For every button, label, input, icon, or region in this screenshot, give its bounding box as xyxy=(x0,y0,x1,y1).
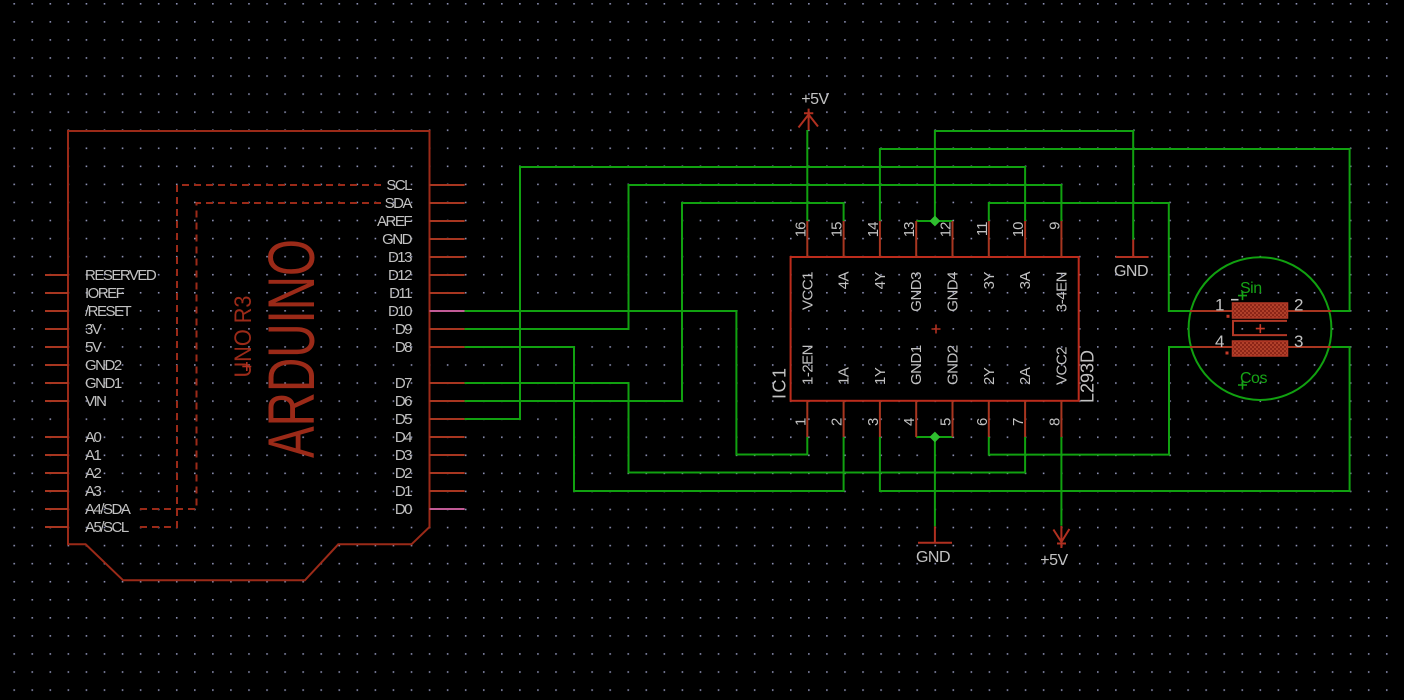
svg-text:GND1: GND1 xyxy=(908,345,925,385)
svg-text:+5V: +5V xyxy=(801,91,829,108)
svg-text:A3: A3 xyxy=(85,483,102,500)
svg-text:1A: 1A xyxy=(836,367,853,385)
svg-text:VCC1: VCC1 xyxy=(799,272,816,310)
Arduino right pin D4 xyxy=(430,436,465,438)
wire IC pin 14 to motor pin 2 xyxy=(880,149,1350,311)
IC1 pin 16 (VCC1) xyxy=(806,221,808,257)
svg-text:D7: D7 xyxy=(395,375,412,392)
motor rotor bracket xyxy=(1233,321,1287,335)
wire net D6 to IC pin 15 xyxy=(465,203,844,401)
Arduino left pin 5V xyxy=(45,346,68,348)
svg-text:/RESET: /RESET xyxy=(85,303,132,320)
svg-text:13: 13 xyxy=(901,222,918,237)
Arduino left pin 3V xyxy=(45,328,68,330)
Arduino right pin D7 xyxy=(430,382,465,384)
GND symbol right xyxy=(1116,240,1149,258)
svg-text:6: 6 xyxy=(974,418,991,426)
svg-text:3: 3 xyxy=(865,418,882,426)
svg-text:D13: D13 xyxy=(388,249,412,266)
svg-text:4: 4 xyxy=(901,418,918,426)
wire IC pins 4,5 tie to GND xyxy=(916,437,952,526)
svg-text:1: 1 xyxy=(1215,296,1224,315)
motor pin 2 lead xyxy=(1288,310,1332,312)
svg-text:D1: D1 xyxy=(395,483,412,500)
svg-text:2Y: 2Y xyxy=(981,367,998,385)
Arduino right pin D10 xyxy=(430,310,465,312)
svg-text:IC1: IC1 xyxy=(770,366,790,399)
op-amp driver IC1 L293D body xyxy=(791,257,1079,401)
dashed I2C wire SCL to A5/SCL xyxy=(135,185,381,527)
Arduino UNO R3 module A1 body outline xyxy=(68,131,430,580)
IC1 pin 15 (4A) xyxy=(843,221,845,257)
IC1 pin 11 (3Y) xyxy=(988,221,990,257)
IC1 pin 3 (1Y) xyxy=(879,401,881,437)
svg-text:D9: D9 xyxy=(395,321,412,338)
Arduino right pin D6 xyxy=(430,400,465,402)
svg-text:1Y: 1Y xyxy=(872,367,889,385)
svg-text:A2: A2 xyxy=(85,465,102,482)
Arduino right pin GND xyxy=(430,238,465,240)
svg-text:VCC2: VCC2 xyxy=(1053,347,1070,385)
Arduino left pin IOREF xyxy=(45,292,68,294)
Arduino left pin A3 xyxy=(45,490,68,492)
wire IC pin 6 to motor pin 4 xyxy=(989,347,1190,455)
svg-text:SCL: SCL xyxy=(386,177,412,194)
svg-text:16: 16 xyxy=(792,222,809,237)
IC1 pin 10 (3A) xyxy=(1024,221,1026,257)
svg-text:3: 3 xyxy=(1294,332,1303,351)
svg-text:A4/SDA: A4/SDA xyxy=(85,501,131,518)
Arduino right pin SDA xyxy=(430,202,465,204)
svg-text:14: 14 xyxy=(865,222,882,237)
svg-text:4: 4 xyxy=(1215,332,1224,351)
svg-text:3Y: 3Y xyxy=(981,272,998,290)
IC1 pin 2 (1A) xyxy=(843,401,845,437)
Arduino right pin D8 xyxy=(430,346,465,348)
motor coil Cos winding xyxy=(1233,341,1288,356)
Arduino right pin SCL xyxy=(430,184,465,186)
dashed I2C wire SDA to A4/SDA xyxy=(140,203,381,509)
junction at IC pins 4-5 xyxy=(930,432,941,443)
svg-text:IOREF: IOREF xyxy=(85,285,125,302)
IC1 pin 9 (3-4EN) xyxy=(1060,221,1062,257)
svg-text:AREF: AREF xyxy=(377,213,412,230)
svg-text:GND2: GND2 xyxy=(945,345,962,385)
wire IC pin 16 to +5V xyxy=(806,130,808,221)
svg-text:5: 5 xyxy=(938,418,955,426)
wire IC pin 3 to motor pin 3 xyxy=(880,347,1350,491)
svg-text:D6: D6 xyxy=(395,393,412,410)
Arduino right pin D3 xyxy=(430,454,465,456)
IC1 pin 5 (GND2) xyxy=(952,401,954,437)
svg-text:VIN: VIN xyxy=(85,393,106,410)
UNO R3 origin cross xyxy=(242,362,251,371)
Arduino left pin GND2 xyxy=(45,364,68,366)
svg-text:D2: D2 xyxy=(395,465,412,482)
Arduino left pin A5/SCL xyxy=(45,526,68,528)
svg-text:4Y: 4Y xyxy=(872,272,889,290)
Arduino left pin GND1 xyxy=(45,382,68,384)
Arduino left pin A1 xyxy=(45,454,68,456)
+5V supply symbol top xyxy=(799,109,819,130)
svg-text:D5: D5 xyxy=(395,411,412,428)
svg-text:ARDUINO: ARDUINO xyxy=(254,239,328,458)
Arduino right pin D2 xyxy=(430,472,465,474)
wire net D10 to IC pin 1 xyxy=(465,311,808,455)
motor pin 4 lead xyxy=(1190,346,1233,348)
Arduino left pin VIN xyxy=(45,400,68,402)
Arduino right pin D5 xyxy=(430,418,465,420)
svg-text:1-2EN: 1-2EN xyxy=(799,345,816,385)
motor Sin plus mark xyxy=(1238,291,1247,300)
IC1 origin cross xyxy=(932,325,941,334)
svg-text:D3: D3 xyxy=(395,447,412,464)
svg-text:11: 11 xyxy=(974,222,991,236)
svg-text:GND3: GND3 xyxy=(908,272,925,312)
motor polarity dot pin1 xyxy=(1227,315,1230,318)
wire IC pin 11 to motor pin 1 xyxy=(989,203,1190,311)
GND symbol bottom xyxy=(918,526,952,542)
svg-text:3V: 3V xyxy=(85,321,102,338)
Arduino right pin D9 xyxy=(430,328,465,330)
svg-text:10: 10 xyxy=(1010,222,1027,237)
svg-text:15: 15 xyxy=(829,222,846,237)
wire net D5 to IC pin 10 xyxy=(465,167,1026,419)
svg-text:D10: D10 xyxy=(388,303,412,320)
svg-text:5V: 5V xyxy=(85,339,102,356)
svg-text:12: 12 xyxy=(938,222,955,237)
svg-text:A1: A1 xyxy=(85,447,102,464)
svg-text:9: 9 xyxy=(1046,222,1063,230)
svg-text:+5V: +5V xyxy=(1040,552,1068,569)
svg-text:GND: GND xyxy=(916,549,950,566)
IC1 pin 14 (4Y) xyxy=(879,221,881,257)
svg-text:SDA: SDA xyxy=(385,195,413,212)
Arduino left pin /RESET xyxy=(45,310,68,312)
motor pin 3 lead xyxy=(1288,346,1332,348)
IC1 pin 8 (VCC2) xyxy=(1060,401,1062,437)
svg-text:GND2: GND2 xyxy=(85,357,122,374)
motor Cos plus mark xyxy=(1238,381,1247,390)
svg-text:GND4: GND4 xyxy=(945,272,962,312)
svg-text:GND1: GND1 xyxy=(85,375,122,392)
motor M1 body circle xyxy=(1189,257,1332,400)
motor Sin minus mark xyxy=(1231,299,1239,301)
Arduino right pin D11 xyxy=(430,292,465,294)
wire IC pins 13,12 tie to GND xyxy=(916,131,1133,240)
junction at IC pins 13-12 xyxy=(930,216,941,227)
motor coil Sin winding xyxy=(1233,303,1288,318)
svg-text:D0: D0 xyxy=(395,501,412,518)
svg-text:2: 2 xyxy=(1294,296,1303,315)
+5V supply symbol bottom (arrow down) xyxy=(1053,526,1069,548)
Arduino left pin A0 xyxy=(45,436,68,438)
Arduino left pin RESERVED xyxy=(45,274,68,276)
IC1 pin 1 (1-2EN) xyxy=(806,401,808,437)
motor polarity dot pin4 xyxy=(1226,352,1229,355)
svg-text:4A: 4A xyxy=(836,272,853,290)
IC1 pin 7 (2A) xyxy=(1024,401,1026,437)
svg-text:2: 2 xyxy=(829,418,846,426)
Arduino right pin AREF xyxy=(430,220,465,222)
Arduino right pin D0 xyxy=(430,508,465,510)
Arduino right pin D1 xyxy=(430,490,465,492)
svg-text:D12: D12 xyxy=(388,267,412,284)
wire net D8 to IC pin 2 xyxy=(465,347,844,491)
svg-text:L293D: L293D xyxy=(1078,350,1098,403)
svg-text:D8: D8 xyxy=(395,339,412,356)
svg-text:2A: 2A xyxy=(1017,367,1034,385)
Arduino left pin A2 xyxy=(45,472,68,474)
wire net D7 to IC pin 7 xyxy=(465,383,1026,473)
svg-text:A5/SCL: A5/SCL xyxy=(85,519,129,536)
svg-text:1: 1 xyxy=(792,418,809,426)
svg-text:A0: A0 xyxy=(85,429,102,446)
IC1 pin 12 (GND4) xyxy=(952,221,954,257)
svg-text:3A: 3A xyxy=(1017,272,1034,290)
Arduino right pin D13 xyxy=(430,256,465,258)
svg-text:8: 8 xyxy=(1046,418,1063,426)
Arduino left pin A4/SDA xyxy=(45,508,68,510)
wire IC pin 8 to +5V xyxy=(1060,437,1062,526)
svg-text:D11: D11 xyxy=(389,285,412,302)
svg-text:GND: GND xyxy=(382,231,413,248)
svg-text:RESERVED: RESERVED xyxy=(85,267,157,284)
IC1 pin 6 (2Y) xyxy=(988,401,990,437)
svg-text:UNO R3: UNO R3 xyxy=(230,296,257,378)
motor origin cross xyxy=(1256,324,1265,333)
IC1 pin 13 (GND3) xyxy=(915,221,917,257)
svg-text:7: 7 xyxy=(1010,418,1027,426)
motor pin 1 lead xyxy=(1190,310,1233,312)
svg-text:3-4EN: 3-4EN xyxy=(1053,272,1070,312)
svg-text:D4: D4 xyxy=(395,429,412,446)
svg-text:GND: GND xyxy=(1114,263,1148,280)
Arduino right pin D12 xyxy=(430,274,465,276)
wire net D9 to IC pin 9 xyxy=(465,185,1062,329)
IC1 pin 4 (GND1) xyxy=(915,401,917,437)
